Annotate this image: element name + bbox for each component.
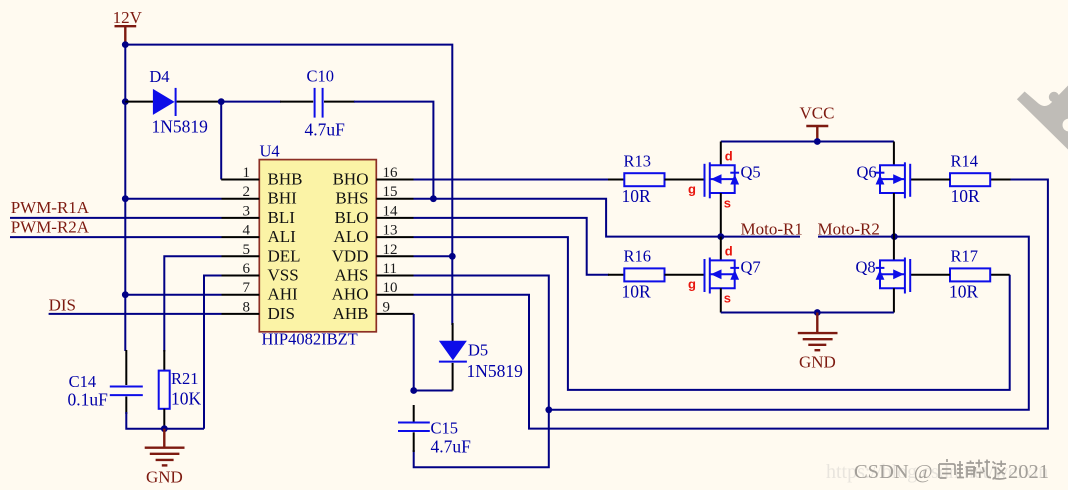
pin 12 VDD: [332, 242, 414, 265]
svg-text:BLO: BLO: [335, 208, 369, 227]
resistor R17 10R: [949, 247, 990, 302]
wire AHB down to D5/C15: [414, 314, 453, 391]
IC U4 HIP4082IBZT: [259, 142, 376, 349]
svg-text:s: s: [724, 291, 731, 306]
svg-text:15: 15: [383, 184, 398, 200]
node GND rail junction: [814, 309, 821, 316]
svg-text:ALO: ALO: [334, 227, 369, 246]
wire BLO to R16: [414, 218, 610, 275]
svg-text:Q8: Q8: [856, 258, 876, 277]
svg-text:7: 7: [243, 280, 251, 296]
resistor R16 10R: [622, 247, 665, 302]
svg-text:2021: 2021: [1008, 461, 1049, 483]
node AHI junction: [122, 291, 129, 298]
svg-text:4: 4: [243, 223, 251, 239]
svg-text:D4: D4: [149, 67, 169, 86]
svg-text:VCC: VCC: [800, 104, 835, 123]
wire Q7 source lead: [720, 288, 722, 312]
node AHB / D5 / C15 junction: [410, 387, 417, 394]
svg-text:U4: U4: [260, 142, 280, 161]
wire Q8 source lead: [893, 288, 895, 312]
svg-text:ALI: ALI: [268, 227, 297, 246]
svg-text:BHB: BHB: [268, 170, 303, 189]
wire BHB vertical: [220, 102, 222, 180]
node D4 cathode / C10 / BHB junction: [218, 98, 225, 105]
wire Moto-R2 rail: [818, 236, 894, 238]
wire Q8 drain lead: [893, 237, 895, 261]
svg-text:8: 8: [243, 299, 251, 315]
svg-text:Moto-R1: Moto-R1: [741, 219, 803, 238]
wire BHS to Moto-R1: [414, 199, 721, 237]
svg-text:DIS: DIS: [49, 296, 76, 315]
pin 14 BLO: [335, 203, 414, 227]
capacitor C10 4.7uF: [305, 67, 346, 140]
transistor Q8: [856, 258, 911, 294]
wire PWM-R2A: [10, 236, 222, 238]
wire D4 anode lead: [125, 101, 153, 103]
wire R17 to Q8 gate: [911, 274, 951, 276]
svg-text:g: g: [688, 277, 696, 292]
resistor R13 10R: [622, 151, 665, 206]
node VCC rail junction: [814, 138, 821, 145]
svg-text:Q7: Q7: [741, 258, 761, 277]
svg-text:R17: R17: [951, 247, 979, 266]
wire R14 to Q6 gate: [911, 179, 951, 181]
svg-text:PWM-R1A: PWM-R1A: [11, 198, 90, 217]
svg-text:D5: D5: [468, 341, 488, 360]
svg-text:VSS: VSS: [268, 266, 299, 285]
svg-text:GND: GND: [146, 468, 183, 487]
svg-text:C15: C15: [431, 419, 459, 438]
svg-text:AHS: AHS: [334, 266, 368, 285]
svg-text:BHO: BHO: [333, 170, 369, 189]
wire H-bridge bottom rail: [721, 312, 894, 314]
svg-text:C14: C14: [69, 372, 97, 391]
transistor Q7: [688, 244, 761, 306]
svg-text:10: 10: [383, 280, 398, 296]
wire VDD stub: [414, 255, 453, 257]
wire AHS to C15 bottom: [414, 276, 549, 468]
node VDD junction: [449, 253, 456, 260]
capacitor C15 4.7uF: [398, 405, 471, 457]
svg-text:R13: R13: [624, 151, 652, 170]
diode D5 1N5819: [439, 323, 523, 391]
pin 15 BHS: [335, 184, 413, 208]
wire R16 to Q7 gate: [665, 274, 705, 276]
wire Q6 drain lead: [893, 142, 895, 166]
svg-text:HIP4082IBZT: HIP4082IBZT: [262, 330, 358, 349]
wire PWM-R1A: [10, 217, 222, 219]
svg-text:Q5: Q5: [741, 163, 761, 182]
pin 4 ALI: [222, 223, 297, 247]
svg-text:12: 12: [383, 242, 398, 258]
svg-text:VDD: VDD: [332, 246, 369, 265]
svg-text:g: g: [688, 182, 696, 197]
wire bottom-left rail: [126, 412, 204, 429]
node AHS / Moto-R2 wire junction: [545, 406, 552, 413]
svg-text:Q6: Q6: [857, 163, 877, 182]
svg-text:d: d: [725, 149, 733, 164]
svg-text:1N5819: 1N5819: [467, 361, 524, 381]
pin 9 AHB: [333, 299, 414, 323]
svg-text:10R: 10R: [622, 281, 652, 301]
svg-text:10K: 10K: [171, 388, 202, 408]
wire ALO to R17: [414, 237, 1010, 390]
pin 5 DEL: [222, 242, 301, 265]
wire AHI tie: [125, 294, 221, 296]
diode D4 1N5819: [149, 67, 208, 136]
wire DEL to R21: [164, 256, 221, 351]
pin 2 BHI: [222, 184, 298, 208]
wire Q5 drain lead: [720, 142, 722, 166]
node BHI junction: [122, 195, 129, 202]
wire BHI tie: [125, 198, 221, 200]
pin 10 AHO: [332, 280, 414, 304]
watermark logo swoosh (decorative): [1017, 86, 1068, 150]
wire DIS: [49, 313, 222, 315]
svg-text:C10: C10: [307, 67, 335, 86]
svg-text:GND: GND: [799, 353, 836, 372]
resistor R14 10R: [950, 151, 990, 206]
wire Moto-R1 stub: [721, 236, 800, 238]
transistor Q5: [688, 149, 761, 211]
svg-text:Moto-R2: Moto-R2: [818, 219, 880, 238]
svg-text:3: 3: [243, 203, 251, 219]
pin 8 DIS: [222, 299, 295, 323]
svg-text:5: 5: [243, 242, 251, 258]
svg-text:R16: R16: [624, 247, 652, 266]
svg-text:DIS: DIS: [268, 304, 295, 323]
svg-text:AHB: AHB: [333, 304, 369, 323]
power port VCC: [800, 104, 835, 142]
svg-text:9: 9: [383, 299, 391, 315]
wire R13 to Q5 gate: [665, 179, 705, 181]
wire AHS to Moto-R2: [549, 237, 1029, 410]
svg-text:PWM-R2A: PWM-R2A: [11, 217, 90, 236]
svg-text:10R: 10R: [949, 281, 979, 301]
wire top rail 12V to VDD corner: [125, 45, 452, 325]
svg-text:CSDN @: CSDN @: [854, 461, 933, 483]
node 12V rail junction: [122, 41, 129, 48]
wire AHO to R14: [414, 180, 1048, 429]
pin 13 ALO: [334, 223, 414, 247]
pin 1 BHB: [221, 165, 302, 189]
svg-text:16: 16: [383, 165, 399, 181]
pin 7 AHI: [222, 280, 299, 304]
svg-text:BLI: BLI: [268, 208, 296, 227]
wire VSS down: [204, 276, 222, 429]
watermark CSDN text (decorative): [854, 459, 1049, 483]
svg-text:BHS: BHS: [335, 189, 368, 208]
wire BHO to R13: [414, 179, 610, 181]
node Moto-R2 junction: [891, 233, 898, 240]
svg-text:2: 2: [243, 184, 251, 200]
pin 6 VSS: [222, 261, 299, 285]
svg-text:10R: 10R: [951, 186, 981, 206]
wire Q6 source lead: [893, 193, 895, 237]
svg-text:d: d: [725, 244, 733, 259]
svg-text:AHO: AHO: [332, 285, 369, 304]
svg-text:6: 6: [243, 261, 251, 277]
node D4 anode junction: [122, 98, 129, 105]
ground GND (left): [145, 429, 185, 487]
wire Q5 source lead: [720, 193, 722, 237]
svg-text:4.7uF: 4.7uF: [305, 120, 346, 140]
svg-text:DEL: DEL: [268, 246, 301, 265]
svg-text:R21: R21: [171, 369, 199, 388]
svg-text:12V: 12V: [113, 8, 143, 27]
svg-text:1: 1: [243, 165, 251, 181]
svg-text:s: s: [724, 196, 731, 211]
wire H-bridge top rail: [721, 141, 894, 143]
svg-text:R14: R14: [951, 151, 979, 170]
capacitor C14 0.1uF: [68, 350, 143, 414]
node R21 ground junction: [161, 425, 168, 432]
wire C10 left: [221, 101, 281, 103]
node Moto-R1 junction: [717, 233, 724, 240]
svg-text:4.7uF: 4.7uF: [431, 437, 472, 457]
wire Q7 drain lead: [720, 237, 722, 261]
node BHS / C10 junction: [430, 195, 437, 202]
pin 3 BLI: [222, 203, 296, 227]
wire 12V vertical rail: [124, 45, 126, 351]
svg-text:14: 14: [383, 203, 399, 219]
svg-text:13: 13: [383, 223, 398, 239]
wire C10 right to BHS: [324, 101, 355, 103]
power port 12V: [113, 8, 143, 45]
svg-text:11: 11: [383, 261, 397, 277]
svg-text:10R: 10R: [622, 186, 652, 206]
wire D4 cathode lead: [177, 101, 222, 103]
svg-text:AHI: AHI: [268, 285, 299, 304]
svg-text:0.1uF: 0.1uF: [68, 390, 109, 410]
pin 11 AHS: [334, 261, 413, 285]
ground GND (H-bridge): [798, 313, 838, 372]
resistor R21 10K: [159, 350, 202, 429]
svg-text:BHI: BHI: [268, 189, 298, 208]
transistor Q6: [857, 162, 911, 198]
pin 16 BHO: [333, 165, 414, 189]
svg-text:1N5819: 1N5819: [152, 116, 209, 136]
